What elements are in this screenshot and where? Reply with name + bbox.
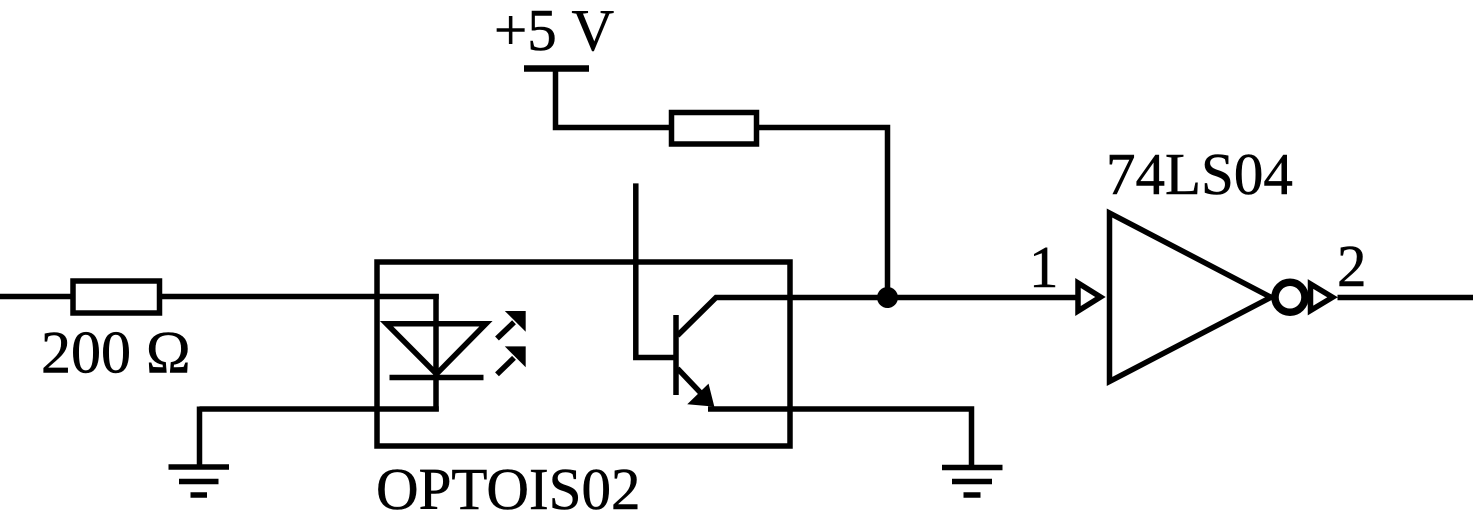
wire LED cathode bottom to left ground bbox=[200, 406, 439, 412]
LED cathode vertical lead bbox=[433, 294, 439, 412]
optocoupler box OPTOIS02 bbox=[377, 262, 790, 446]
svg-text:+5 V: +5 V bbox=[494, 0, 614, 63]
svg-text:1: 1 bbox=[1029, 234, 1059, 300]
wire output to right edge bbox=[1338, 295, 1473, 301]
wire down to left ground bbox=[197, 407, 203, 468]
wire input from left edge bbox=[0, 294, 71, 300]
LED D1 bbox=[387, 324, 487, 378]
resistor R1 200 ohm bbox=[73, 281, 160, 313]
svg-text:OPTOIS02: OPTOIS02 bbox=[376, 456, 640, 522]
resistor R2 pullup bbox=[672, 113, 757, 145]
light arrow lower bbox=[497, 346, 526, 374]
light arrow upper bbox=[497, 311, 526, 339]
phototransistor emitter with arrow bbox=[678, 369, 714, 406]
inverter bubble bbox=[1275, 282, 1305, 312]
ground right bbox=[942, 468, 1003, 496]
inverter output arrow bbox=[1311, 284, 1333, 311]
inverter input arrow bbox=[1078, 283, 1101, 311]
svg-text:74LS04: 74LS04 bbox=[1106, 141, 1293, 207]
inverter U1 triangle 74LS04 bbox=[1110, 213, 1272, 382]
phototransistor base bar bbox=[673, 315, 679, 395]
svg-text:200 Ω: 200 Ω bbox=[41, 320, 191, 386]
wire emitter to right ground bbox=[708, 409, 972, 468]
svg-text:2: 2 bbox=[1337, 233, 1367, 299]
phototransistor base lead bbox=[636, 183, 674, 357]
wire from R1 into optocoupler to LED anode bbox=[160, 294, 439, 300]
wire from +5V bar down and right to pullup resistor bbox=[556, 69, 670, 128]
ground left bbox=[169, 467, 230, 495]
node junction dot bbox=[877, 287, 898, 308]
wire junction to inverter input bbox=[888, 295, 1077, 301]
phototransistor collector bbox=[678, 298, 888, 336]
power rail +5V bar bbox=[524, 65, 589, 72]
wire from pullup resistor to junction column bbox=[757, 128, 888, 298]
